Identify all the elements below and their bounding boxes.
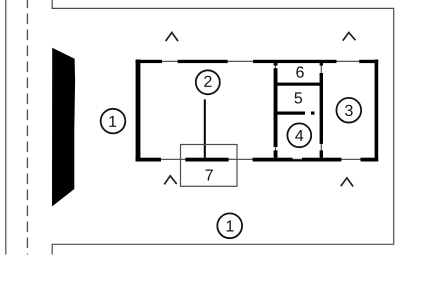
window line bottom wall <box>137 158 377 160</box>
divider wall rooms 5-4 <box>274 112 305 115</box>
room 7 label <box>206 169 213 180</box>
wall bottom segment 4 <box>302 158 341 162</box>
box room 7 <box>181 145 238 187</box>
caret mark top right <box>343 33 356 41</box>
caret mark bottom left <box>164 176 176 185</box>
lot boundary rectangle <box>52 0 394 255</box>
stem line below marker 2 <box>204 99 206 157</box>
wall top segment 3 <box>253 60 336 63</box>
partition A bottom nub <box>274 150 278 157</box>
door threshold <box>293 160 303 162</box>
wall top segment 2 <box>178 60 228 63</box>
hedge filled polygon <box>52 48 75 207</box>
marker 4 label <box>295 130 303 141</box>
partition A centerline <box>275 62 277 158</box>
divider wall rooms 6-5 <box>274 83 322 86</box>
marker 1 left label <box>109 116 116 127</box>
caret mark top left <box>166 33 178 42</box>
marker circle 2 <box>196 70 220 94</box>
caret mark bottom right <box>341 178 353 187</box>
partition B centerline <box>320 62 322 158</box>
wall top segment 4 <box>359 60 378 63</box>
divider wall 5-4 nub <box>311 112 314 115</box>
wall top segment 1 <box>136 60 162 63</box>
marker circle 4 <box>287 123 311 147</box>
marker circle 3 <box>336 98 361 123</box>
partition B bottom nub <box>320 150 323 157</box>
window line top wall <box>137 60 377 62</box>
wall bottom segment 5 <box>361 158 379 162</box>
property dashed line <box>26 0 28 255</box>
partition A main <box>274 68 278 147</box>
marker circle 1 bottom <box>217 213 242 238</box>
room 6 label <box>296 66 303 77</box>
road edge solid line <box>5 0 7 255</box>
wall right <box>375 60 379 162</box>
room 5 label <box>294 92 302 103</box>
wall bottom segment 3 <box>253 158 293 162</box>
marker 3 label <box>345 105 353 116</box>
marker 2 label <box>204 76 211 87</box>
partition B top nub <box>320 63 323 65</box>
wall left <box>136 60 141 162</box>
marker circle 1 left <box>101 109 126 134</box>
wall bottom segment 1 <box>136 158 161 162</box>
partition B main <box>320 73 323 144</box>
marker 1 bottom label <box>227 220 234 231</box>
wall bottom segment 2 T-bar <box>185 158 228 162</box>
partition A top nub <box>274 63 278 65</box>
